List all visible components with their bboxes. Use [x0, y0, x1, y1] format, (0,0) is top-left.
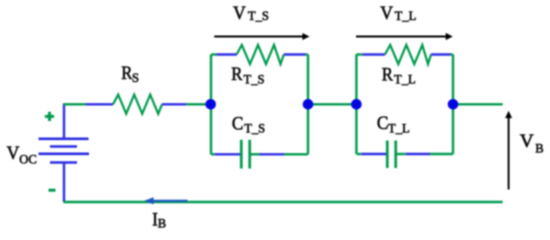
svg-text:R: R [231, 64, 242, 85]
wire box2 bottom-right green [430, 153, 453, 155]
wire battery top lead (blue vertical) [63, 103, 65, 138]
svg-text:C: C [377, 113, 389, 134]
node C junction dot [351, 99, 362, 110]
wire box2 top-right green [451, 53, 454, 55]
wire into node A (green) [186, 103, 211, 105]
wire C_T_S left lead (blue) [215, 153, 241, 155]
wire R_T_S left lead (blue) [217, 53, 237, 55]
node B junction dot [303, 99, 314, 110]
minus terminal mark [49, 189, 56, 192]
RC branch 2 left vertical wire [355, 55, 357, 155]
wire top-left green segment [64, 103, 87, 105]
svg-text:B: B [158, 217, 166, 231]
svg-text:B: B [535, 142, 543, 156]
svg-text:R: R [382, 65, 393, 86]
voltage source V_OC battery symbol [39, 139, 90, 163]
resistor R_T_L [385, 45, 431, 64]
svg-text:T_L: T_L [395, 9, 417, 23]
resistor R_T_S [237, 45, 284, 64]
node A junction dot [205, 99, 216, 110]
wire box1 bottom-left green [211, 153, 215, 155]
svg-text:T_L: T_L [388, 121, 410, 135]
wire battery bottom lead (blue vertical) [63, 163, 65, 203]
svg-text:V: V [7, 143, 20, 164]
wire R_S right lead (blue) [162, 103, 186, 105]
wire box2 bottom-left green [356, 153, 361, 155]
svg-text:T_L: T_L [394, 72, 416, 86]
svg-text:T_S: T_S [244, 72, 265, 86]
wire box2 top-left green [356, 53, 362, 55]
wire R_T_L right lead (blue) [431, 53, 451, 55]
arrow I_B (blue, pointing left) [144, 197, 187, 204]
svg-text:T_S: T_S [248, 9, 269, 23]
RC branch 2 right vertical wire [452, 55, 454, 155]
capacitor C_T_L [387, 141, 395, 169]
RC branch 1 left vertical wire [210, 55, 212, 155]
wire C_T_L left lead (blue) [361, 153, 386, 155]
resistor R_S [113, 95, 162, 114]
wire bottom return (green) [64, 201, 503, 203]
svg-text:V: V [380, 3, 393, 24]
wire R_S left lead (blue) [86, 103, 113, 105]
wire C_T_S right stub (green) [251, 153, 260, 155]
wire output terminal (green) [453, 103, 503, 105]
wire R_T_S right lead (blue) [284, 53, 306, 55]
svg-text:T_S: T_S [244, 121, 265, 135]
arrow V_T_S [214, 33, 309, 40]
svg-text:S: S [132, 71, 139, 85]
wire box1 top-right green [306, 53, 309, 55]
svg-text:V: V [520, 131, 534, 152]
wire between RC branches (green) [308, 103, 356, 105]
wire box1 top-left green [211, 53, 217, 55]
RC branch 1 right vertical wire [307, 55, 309, 155]
wire C_T_L right stub (green) [397, 153, 406, 155]
wire box1 bottom-right green [284, 153, 308, 155]
wire C_T_S right lead (blue) [260, 153, 285, 155]
arrow V_T_L [356, 33, 453, 40]
capacitor C_T_S [241, 140, 249, 169]
node D junction dot [448, 99, 459, 110]
arrow V_B [505, 111, 512, 190]
svg-text:C: C [232, 114, 244, 135]
plus terminal mark [45, 112, 54, 121]
wire R_T_L left lead (blue) [363, 53, 385, 55]
svg-text:V: V [233, 3, 246, 24]
wire C_T_L right lead (blue) [406, 153, 430, 155]
svg-text:OC: OC [19, 152, 37, 166]
